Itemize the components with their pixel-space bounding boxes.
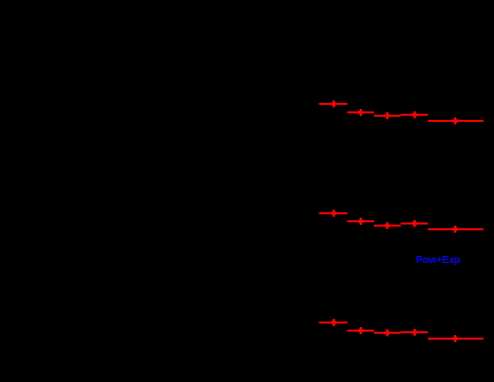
panel 1 data point 2 bin line	[347, 111, 374, 113]
panel 2 data point 4 bin line	[401, 223, 428, 225]
panel 1 data point 4 marker with error bar	[412, 111, 417, 118]
panel 2 data point 3 marker with error bar	[385, 222, 390, 229]
panel 2 data point 1 marker with error bar	[331, 210, 336, 217]
panel 3 data point 3 bin line	[374, 332, 401, 334]
panel 2 data point 2 marker with error bar	[358, 218, 363, 225]
panel 1 data point 5 bin line	[428, 120, 483, 122]
panel 1 data point 4 bin line	[401, 114, 428, 116]
panel 1 data point 3 bin line	[374, 115, 401, 117]
svg-text:Pow+Exp: Pow+Exp	[416, 255, 461, 266]
panel 2 data point 5 bin line	[428, 228, 483, 230]
panel 3 data point 5 bin line	[428, 338, 483, 340]
panel 3 data point 3 marker with error bar	[385, 329, 390, 336]
panel 3 data point 4 bin line	[401, 331, 428, 333]
panel 3 data point 2 marker with error bar	[358, 327, 363, 334]
panel 3 data point 2 bin line	[347, 330, 374, 332]
panel 2 data point 5 marker with error bar	[453, 226, 458, 233]
panel 2 data point 3 bin line	[374, 225, 401, 227]
panel 2 data point 2 bin line	[347, 220, 374, 222]
panel 1 data point 5 marker with error bar	[453, 117, 458, 124]
panel 1 data point 1 marker with error bar	[331, 100, 336, 107]
panel 2 data point 4 marker with error bar	[412, 220, 417, 227]
panel 1 data point 3 marker with error bar	[385, 112, 390, 119]
panel 3 data point 1 bin line	[319, 322, 347, 324]
panel 1 data point 1 bin line	[319, 103, 347, 105]
panel 3 data point 4 marker with error bar	[412, 329, 417, 336]
panel 3 data point 1 marker with error bar	[331, 319, 336, 326]
panel 1 data point 2 marker with error bar	[358, 109, 363, 116]
panel 3 data point 5 marker with error bar	[453, 335, 458, 342]
panel 2 data point 1 bin line	[319, 212, 347, 214]
legend label Pow+Exp	[416, 255, 461, 266]
